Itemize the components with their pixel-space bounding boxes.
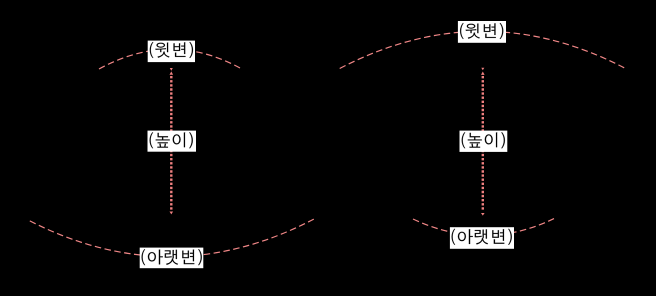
left figure: bottom-side brace arc	[30, 219, 314, 257]
left figure: top-side brace arc	[99, 49, 240, 69]
right figure: down arrowhead of height line	[481, 213, 485, 216]
left figure: up arrowhead of height line	[170, 71, 174, 74]
right label (윗변) top side	[458, 21, 506, 43]
right figure: up arrowhead of height line	[481, 72, 485, 75]
left figure: height dimension dotted line	[170, 76, 172, 211]
right label (높이) height	[460, 131, 508, 152]
right figure: height dimension dotted line	[482, 76, 484, 211]
left figure: down arrowhead of height line	[170, 212, 174, 215]
right label (아랫변) bottom side	[450, 227, 514, 249]
left label (높이) height	[148, 131, 197, 152]
left label (아랫변) bottom side	[140, 248, 204, 269]
left figure: small down tick above height line	[170, 68, 173, 71]
left label (윗변) top side	[148, 41, 195, 63]
right figure: bottom-side brace arc	[413, 219, 554, 236]
right figure: small down tick above height line	[481, 68, 484, 71]
right figure: top-side brace arc	[340, 31, 625, 68]
